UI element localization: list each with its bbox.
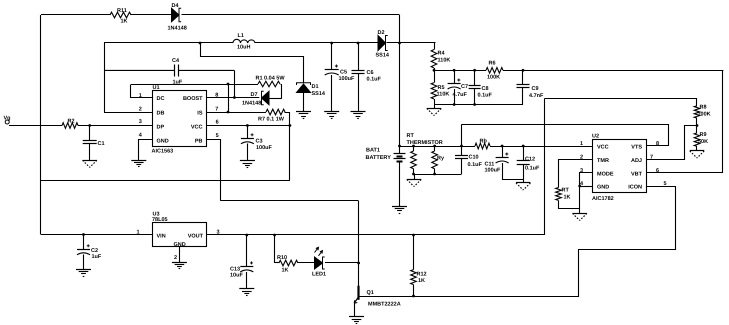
svg-text:R4: R4 [438, 51, 446, 57]
svg-text:D2: D2 [378, 30, 385, 36]
wire C8 bottom [474, 89, 476, 105]
diode D2 [378, 36, 386, 51]
wire R9 bottom [696, 146, 698, 151]
svg-text:1K: 1K [564, 195, 571, 201]
ground under C2 [76, 269, 91, 271]
svg-text:GND: GND [157, 139, 169, 145]
junction C9 top [522, 69, 525, 72]
svg-text:C1: C1 [98, 141, 105, 147]
wire top rail right segment [182, 14, 400, 16]
wire ICON route [360, 187, 676, 297]
wire VTS route [462, 125, 669, 146]
svg-text:R6: R6 [489, 61, 496, 67]
wire boost rail right [387, 42, 436, 44]
svg-text:10uF: 10uF [230, 273, 243, 279]
wire RT stem [413, 146, 415, 151]
svg-text:C12: C12 [525, 157, 535, 163]
svg-text:IS: IS [197, 111, 203, 117]
resistor R8 [694, 106, 700, 118]
inductor L1 [233, 39, 255, 43]
svg-text:L1: L1 [238, 33, 244, 39]
wire R5 top [434, 70, 436, 82]
svg-text:SS14: SS14 [312, 91, 326, 97]
wire ADJ route [647, 126, 697, 160]
svg-text:R8: R8 [700, 105, 707, 111]
LED1 arrow a [315, 247, 319, 252]
wire Vg input [9, 125, 62, 127]
wire U1 GND stub [139, 140, 153, 161]
svg-text:1K: 1K [121, 19, 128, 25]
svg-text:VTS: VTS [631, 145, 642, 151]
wire C3 stem [247, 126, 249, 139]
svg-text:D1: D1 [312, 84, 319, 90]
svg-text:1: 1 [580, 141, 583, 147]
svg-text:BOOST: BOOST [183, 96, 203, 102]
svg-text:THERMISTOR: THERMISTOR [407, 140, 443, 146]
junction C13 [245, 234, 248, 237]
capacitor C1 [83, 140, 97, 142]
svg-text:Vg: Vg [4, 116, 11, 122]
capacitor C12 [517, 160, 530, 162]
junction C1 [88, 124, 91, 127]
svg-text:0.1uF: 0.1uF [478, 93, 493, 99]
wire R8 top corner [545, 99, 697, 106]
svg-text:BAT1: BAT1 [366, 148, 380, 154]
resistor R2 [62, 123, 78, 129]
svg-text:100K: 100K [698, 112, 711, 118]
ground under U3 [172, 262, 187, 264]
svg-text:6: 6 [656, 168, 659, 174]
svg-text:7: 7 [215, 107, 218, 113]
op-amp U2 box [593, 140, 647, 193]
wire top rail left segment [41, 14, 110, 16]
ground under battery [392, 206, 407, 208]
capacitor C7 [448, 83, 461, 85]
junction R4/R5 [433, 69, 436, 72]
wire C11 stem [502, 146, 504, 158]
svg-text:TMR: TMR [597, 158, 609, 164]
junction C3 [246, 124, 249, 127]
svg-text:4.7nF: 4.7nF [529, 93, 544, 99]
svg-text:100uF: 100uF [485, 168, 502, 174]
wire D1 to ground [303, 93, 305, 112]
wire top rail mid segment [131, 14, 171, 16]
ground under U2 [573, 213, 587, 215]
junction battery / VCC rail [398, 145, 401, 148]
resistor R11 [110, 12, 131, 18]
junction R10 branch [273, 234, 276, 237]
wire R4 bottom [434, 68, 436, 70]
transistor Q1 emitter arrow [354, 300, 357, 303]
svg-text:3: 3 [580, 168, 583, 174]
junction MODE/GND [578, 185, 581, 188]
LED LED1 [315, 257, 323, 269]
diode D4 [172, 8, 180, 22]
wire RT timer bottom [559, 201, 580, 209]
svg-text:C9: C9 [532, 86, 539, 92]
voltage regulator U3 box [153, 223, 207, 247]
wire C12 gnd stem [523, 180, 525, 183]
wire C7 bottom [454, 89, 456, 105]
ground under C11/C12 [516, 182, 530, 184]
wire C4 rail [104, 69, 234, 71]
junction C10 node [460, 145, 463, 148]
wire R9 top [696, 126, 698, 133]
capacitor C2 [77, 249, 90, 251]
wire VCC pin6 row [207, 125, 290, 127]
ground under U1 [131, 160, 146, 162]
svg-text:Q1: Q1 [367, 290, 374, 296]
transistor Q1 base bar [357, 286, 359, 300]
svg-text:Rb: Rb [480, 139, 488, 145]
wire VBT route [647, 71, 723, 173]
svg-text:MODE: MODE [597, 172, 614, 178]
wire 5V divider vertical [544, 99, 546, 236]
ground under R9 [690, 150, 704, 152]
capacitor C6 [352, 70, 365, 72]
wire Vin bottom rail [41, 234, 152, 236]
capacitor C4 [174, 65, 176, 77]
junction IS sense left [227, 83, 230, 86]
svg-text:110K: 110K [437, 92, 450, 98]
svg-text:C4: C4 [172, 58, 180, 64]
wire Ry bottom [434, 169, 436, 174]
junction R8/R9 [696, 124, 699, 127]
resistor R7 [266, 109, 285, 115]
junction top rail / boost rail [398, 42, 401, 45]
wire C8 stem [474, 70, 476, 85]
wire battery top vertical [399, 15, 401, 154]
svg-text:AIC1563: AIC1563 [152, 149, 174, 155]
svg-text:R11: R11 [117, 8, 127, 14]
wire R1 rail [131, 84, 258, 86]
svg-text:BATTERY: BATTERY [366, 155, 392, 161]
capacitor C11 [496, 157, 509, 159]
wire PB horizontal [220, 200, 358, 202]
wire divider ground rail [434, 104, 523, 106]
svg-text:C5: C5 [340, 70, 347, 76]
svg-text:R12: R12 [417, 272, 427, 278]
wire LED-collector vertical [358, 201, 360, 287]
resistor R9 [694, 133, 700, 147]
svg-text:50K: 50K [698, 139, 708, 145]
svg-text:1: 1 [139, 93, 142, 99]
junction C6 [357, 42, 360, 45]
wire R5 bottom [434, 99, 436, 105]
svg-text:1uF: 1uF [92, 254, 102, 260]
wire emitter drop [354, 303, 356, 317]
capacitor C10 [455, 155, 468, 157]
capacitor C3 [241, 138, 254, 140]
ground under R5 [427, 108, 441, 110]
wire C5 to ground [331, 75, 333, 112]
svg-text:100uF: 100uF [339, 76, 356, 82]
ground under thermistor [407, 179, 421, 181]
wire therm gnd stem [414, 174, 416, 180]
svg-text:8: 8 [656, 141, 659, 147]
wire R12 top lead [413, 235, 415, 270]
wire MODE stub [580, 173, 593, 187]
wire thermistor ground rail [414, 174, 462, 176]
ground under C1 [83, 160, 97, 162]
svg-text:AIC1782: AIC1782 [592, 196, 614, 202]
wire RT bottom [413, 169, 415, 174]
svg-text:1: 1 [137, 230, 140, 236]
ground under C3 [240, 160, 255, 162]
ground under C13 [239, 288, 254, 290]
wire C7 stem [454, 70, 456, 83]
junction C2 [82, 233, 85, 236]
svg-text:6: 6 [216, 120, 219, 126]
ground under D1 [296, 111, 311, 113]
junction R12 top [412, 234, 415, 237]
wire left vertical Vin drop [40, 15, 42, 235]
ground under C5 [324, 111, 339, 113]
svg-text:ICON: ICON [628, 185, 642, 191]
wire DB pin stub [104, 112, 152, 114]
svg-text:PB: PB [195, 139, 203, 145]
resistor RT timer [556, 188, 562, 201]
wire LED to collector [325, 262, 359, 264]
junction C12 [522, 145, 525, 148]
wire rail-left vertical to DB [104, 43, 106, 112]
svg-text:1N4148: 1N4148 [242, 101, 261, 107]
svg-text:1K: 1K [282, 268, 289, 274]
resistor RT thermistor [411, 151, 417, 169]
wire R1 right corner [281, 85, 282, 99]
svg-text:0.1uF: 0.1uF [367, 77, 382, 83]
wire C10 vertical [461, 124, 463, 155]
wire C10 bottom [461, 159, 463, 175]
wire VCC rail 2 [490, 146, 592, 148]
svg-text:VCC: VCC [597, 145, 609, 151]
svg-text:D4: D4 [172, 3, 180, 9]
svg-text:SS14: SS14 [376, 53, 390, 59]
transistor Q1 emitter [354, 297, 358, 303]
wire C2 bottom [83, 255, 85, 270]
junction R12 base rail [412, 295, 415, 298]
svg-text:VCC: VCC [191, 125, 203, 131]
wire C3 to ground [247, 144, 249, 161]
resistor R4 [431, 50, 437, 69]
svg-text:Ry: Ry [437, 156, 445, 162]
wire boost rail left [104, 42, 233, 44]
svg-text:GND: GND [597, 185, 609, 191]
wire VTS divider rail right [503, 70, 723, 72]
wire C11-C12 gnd rail [502, 179, 523, 181]
wire R2 to DP [78, 125, 152, 127]
battery BAT1 [394, 153, 406, 155]
wire C9 bottom [522, 88, 524, 105]
junction LED/collector [357, 262, 360, 265]
wire C4 vertical [234, 70, 236, 97]
wire C12 bottom [523, 164, 525, 180]
wire C13 stem [246, 235, 248, 266]
wire C2 stem [83, 235, 85, 250]
wire C9 stem [522, 70, 524, 84]
wire PB stub [207, 140, 221, 201]
svg-text:U1: U1 [153, 85, 160, 91]
LED1 arrow b [319, 251, 323, 256]
wire C6 to ground [358, 74, 360, 112]
svg-text:2: 2 [174, 255, 177, 261]
svg-text:DP: DP [157, 125, 165, 131]
svg-text:R1 0.04 5W: R1 0.04 5W [256, 76, 286, 82]
svg-text:R9: R9 [700, 132, 707, 138]
junction C8 bottom [473, 103, 476, 106]
resistor R5 [431, 83, 437, 99]
wire C13 bottom [246, 272, 248, 289]
svg-text:C6: C6 [367, 70, 374, 76]
wire DC pin stub [131, 85, 153, 98]
svg-text:C3: C3 [256, 139, 263, 145]
junction C8 top [473, 69, 476, 72]
junction Ry bottom [433, 173, 436, 176]
capacitor C13 [240, 266, 253, 268]
junction D1 branch [199, 42, 202, 45]
svg-text:DB: DB [157, 111, 165, 117]
svg-text:LED1: LED1 [312, 272, 326, 278]
wire 5V rail [207, 234, 544, 236]
junction C7 top [453, 69, 456, 72]
svg-text:1N4148: 1N4148 [168, 26, 187, 32]
wire R10 to LED [298, 262, 315, 264]
junction RT bottom [412, 173, 415, 176]
junction VCC row end [289, 124, 292, 127]
junction Ry top [433, 145, 436, 148]
wire R5 gnd stem [434, 105, 436, 109]
ground under C6 [351, 111, 366, 113]
svg-text:3: 3 [139, 119, 142, 125]
wire IS sense vertical [228, 84, 230, 112]
wire C1 to ground [89, 144, 91, 161]
svg-text:U2: U2 [592, 134, 599, 140]
svg-text:100K: 100K [487, 75, 500, 81]
wire U3 gnd stem [179, 247, 181, 262]
svg-text:C10: C10 [469, 155, 479, 161]
svg-text:R5: R5 [438, 85, 445, 91]
junction RT top [412, 145, 415, 148]
wire D1 branch [201, 43, 304, 83]
svg-text:C8: C8 [482, 86, 489, 92]
svg-text:VIN: VIN [157, 234, 166, 240]
diode D1 [297, 84, 311, 93]
wire C1 stem [89, 126, 91, 141]
resistor R12 [411, 270, 417, 285]
svg-text:110K: 110K [438, 58, 451, 64]
svg-text:RT: RT [562, 188, 570, 194]
wire IS corner down [285, 113, 290, 181]
junction C5 [330, 42, 333, 45]
svg-text:DC: DC [157, 96, 165, 102]
wire C12 stem [523, 146, 525, 161]
capacitor C5 [325, 69, 339, 71]
wire D7 anode [269, 98, 282, 100]
node Vg terminal [5, 120, 9, 124]
svg-text:VBT: VBT [631, 172, 643, 178]
svg-text:0.1uF: 0.1uF [468, 162, 483, 168]
wire Ry stem [434, 146, 436, 151]
resistor R1 [258, 81, 280, 87]
op-amp U1 box [153, 91, 207, 147]
wire R4 corner [435, 43, 436, 50]
wire VTS divider rail left [434, 70, 486, 72]
wire U2 gnd drop [579, 186, 581, 213]
resistor R10 [279, 260, 298, 266]
resistor R6 [486, 68, 503, 74]
svg-text:C7: C7 [461, 84, 468, 90]
wire C6 stem [358, 43, 360, 71]
svg-text:10uH: 10uH [237, 45, 250, 51]
wire battery to ground [399, 162, 401, 207]
wire VCC rail [400, 146, 476, 148]
junction C4 boost [233, 96, 236, 99]
wire C11 bottom [502, 163, 504, 180]
resistor Rb [475, 143, 490, 149]
svg-text:1uF: 1uF [173, 80, 183, 86]
svg-text:0.1uF: 0.1uF [525, 166, 540, 172]
wire IS stub [207, 112, 266, 114]
wire C5 stem [331, 43, 333, 70]
junction IS row [227, 111, 230, 114]
svg-text:RT: RT [407, 133, 415, 139]
wire U2 GND stub [580, 186, 593, 188]
capacitor C8 [469, 85, 481, 87]
wire boost rail mid [255, 42, 378, 44]
ground under Q1 [349, 316, 364, 318]
svg-text:5: 5 [216, 133, 219, 139]
wire R10 vertical [274, 235, 276, 263]
resistor Ry [432, 151, 438, 169]
svg-text:VOUT: VOUT [188, 234, 204, 240]
svg-text:MMBT2222A: MMBT2222A [368, 302, 401, 308]
wire R10 lead [275, 262, 279, 264]
svg-text:2: 2 [139, 107, 142, 113]
junction C7 bottom [453, 103, 456, 106]
capacitor C9 [517, 84, 530, 86]
wire feedback rail [41, 180, 290, 182]
svg-text:R2: R2 [68, 119, 75, 125]
svg-text:R7 0.1 1W: R7 0.1 1W [258, 117, 285, 123]
diode D7 [262, 91, 270, 105]
svg-text:100uF: 100uF [256, 145, 273, 151]
junction C11 [501, 145, 504, 148]
svg-text:ADJ: ADJ [631, 158, 642, 164]
wire TMR stub [559, 160, 593, 188]
wire BOOST stub [207, 97, 259, 99]
wire R8 bottom [696, 118, 698, 125]
svg-text:R10: R10 [277, 255, 287, 261]
svg-text:1K: 1K [418, 278, 425, 284]
wire R12 bottom lead [413, 285, 415, 296]
svg-text:78L05: 78L05 [152, 217, 168, 223]
